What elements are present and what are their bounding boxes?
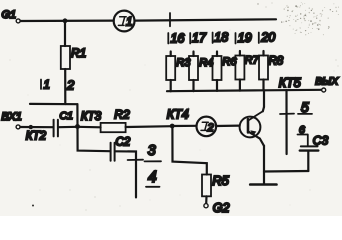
contact 3 tick on C2 drop	[128, 159, 143, 161]
svg-text:C1: C1	[60, 110, 73, 122]
svg-text:R8: R8	[269, 56, 284, 68]
capacitor C1	[54, 110, 73, 136]
svg-text:17: 17	[192, 31, 207, 45]
pin 1 tick	[40, 80, 42, 90]
ground	[250, 183, 276, 186]
svg-text:16: 16	[171, 32, 185, 46]
svg-text:1: 1	[126, 17, 132, 29]
svg-text:ВЫХ: ВЫХ	[315, 77, 339, 88]
meter I1	[114, 11, 135, 32]
wire КТ4 to I2	[172, 125, 196, 127]
wire emitter drop	[263, 146, 265, 185]
svg-text:КТ4: КТ4	[167, 108, 189, 122]
pin 18 tick	[212, 33, 214, 44]
svg-text:1: 1	[44, 80, 50, 92]
resistor R3	[166, 52, 191, 92]
pin 20 tick	[258, 33, 260, 44]
wire I2 to transistor base	[216, 124, 240, 127]
junction top of R1	[63, 18, 68, 23]
wire C1 to КТ3 node	[59, 126, 78, 129]
svg-text:R5: R5	[212, 173, 229, 188]
resistor R5	[202, 173, 230, 204]
capacitor C2	[111, 137, 131, 161]
resistor R1	[61, 46, 70, 69]
wire C3 to emitter line	[264, 170, 308, 173]
wire I1 to right end	[135, 19, 277, 20]
meter I2	[197, 117, 217, 137]
resistor R7	[235, 51, 259, 91]
resistor R6	[213, 52, 238, 91]
terminal ВХ1	[16, 125, 20, 129]
wire КТ4 drop to R5	[172, 126, 206, 175]
junction КТ4	[170, 124, 175, 129]
svg-text:КТ3: КТ3	[81, 111, 102, 123]
svg-text:2: 2	[207, 122, 214, 134]
wire R2 to КТ4	[126, 125, 172, 128]
terminal G2	[204, 204, 208, 208]
wire resistor bottom bus to output	[167, 90, 322, 91]
svg-text:4: 4	[148, 169, 157, 186]
svg-text:R2: R2	[114, 107, 130, 121]
svg-text:2: 2	[66, 78, 75, 93]
pin 19 tick	[235, 33, 237, 44]
svg-text:20: 20	[260, 31, 275, 45]
wire КТ5 drop	[285, 90, 287, 154]
transistor Q1	[240, 107, 264, 146]
wire ВХ1 to C1	[20, 126, 52, 128]
svg-text:ВХ1: ВХ1	[1, 111, 21, 123]
wire C2 right to drop	[116, 151, 136, 197]
svg-text:3: 3	[148, 143, 156, 159]
wire link down to C1 node	[76, 104, 78, 126]
svg-text:C2: C2	[116, 137, 131, 149]
contact 5 tick	[280, 113, 294, 115]
svg-text:5: 5	[301, 99, 309, 115]
svg-text:R4: R4	[199, 57, 213, 69]
wire R1 top lead	[64, 21, 66, 46]
wire КТ3 drop to C2	[78, 127, 110, 151]
pin 17 tick	[189, 33, 191, 44]
svg-text:19: 19	[238, 31, 252, 45]
svg-text:G1: G1	[2, 9, 17, 21]
junction КТ2	[29, 125, 33, 129]
tick on top wire	[169, 13, 171, 26]
svg-text:КТ2: КТ2	[26, 130, 47, 142]
wire collector riser	[263, 90, 265, 107]
capacitor C3	[300, 134, 329, 172]
junction КТ3	[75, 124, 80, 129]
resistor R4	[189, 52, 213, 92]
terminal G1	[16, 19, 20, 23]
svg-text:КТ5: КТ5	[279, 76, 301, 90]
svg-text:G2: G2	[213, 201, 230, 215]
resistor R2	[101, 107, 130, 132]
resistor R8	[259, 51, 284, 90]
svg-text:18: 18	[214, 31, 228, 45]
pin 16 tick	[167, 33, 169, 44]
svg-text:C3: C3	[313, 134, 329, 148]
wire link bar pins 1-2	[30, 103, 77, 105]
svg-text:R1: R1	[71, 46, 86, 60]
wire КТ3 to R2	[78, 126, 101, 129]
wire R1 bottom lead	[64, 69, 66, 104]
wire top bus G1 to I1	[20, 20, 113, 23]
svg-text:R7: R7	[245, 55, 260, 67]
terminal ВЫХ	[322, 88, 326, 92]
